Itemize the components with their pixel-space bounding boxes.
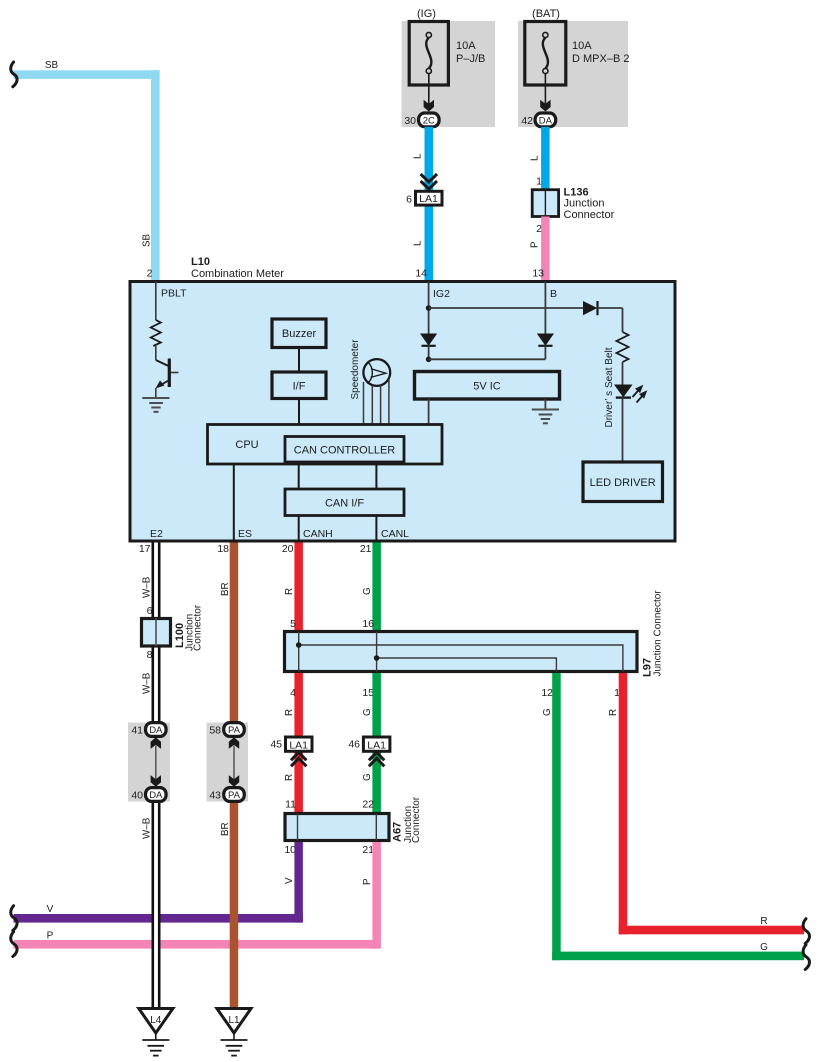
squiggle break at G right end [803,945,809,970]
node junction on IG2 [426,305,432,311]
svg-text:PBLT: PBLT [161,288,187,300]
junction connector L97 [285,632,638,672]
svg-text:V: V [284,877,295,884]
svg-text:LA1: LA1 [367,739,386,751]
wire label W-B (lower) [142,817,153,839]
connector pin 30 (2C) [404,113,439,127]
svg-text:17: 17 [139,543,151,555]
wire L (cyan) from 2C to meter pin 14 [425,127,434,282]
wire 5V IC to CPU [428,399,430,425]
arrow pair between PA connectors [229,737,239,787]
CAN CONTROLLER box [285,437,404,463]
pin 2 label [536,223,542,235]
pin 5 label [290,618,296,630]
wire junction to B branch [429,358,546,360]
wire label BR (lower) [220,822,231,836]
svg-text:Junction Connector: Junction Connector [653,590,664,677]
svg-text:5: 5 [290,618,296,630]
squiggle break at R right end [803,919,809,944]
label 10A D MPX-B 2 [572,40,629,65]
pin 17 label [139,543,151,555]
svg-text:SB: SB [142,233,153,247]
shaded block around IG fuse [402,21,496,127]
shaded block around PA pair [207,723,249,802]
svg-text:IG2: IG2 [433,288,450,300]
pin 21 label [360,543,372,555]
wire label G (middle) [362,708,373,716]
wire label P horizontal [47,931,54,942]
svg-text:R: R [284,588,295,595]
label Driver's Seat Belt (rotated) [604,347,615,427]
pin name CANL [381,528,409,540]
svg-text:Driver’ s Seat Belt: Driver’ s Seat Belt [604,347,615,427]
chevron junction on IG wire [421,174,437,189]
svg-text:LA1: LA1 [289,739,308,751]
svg-text:LED DRIVER: LED DRIVER [590,477,656,489]
pin 21 label (A67) [362,844,374,856]
Buzzer box [272,319,326,348]
label (BAT) [532,8,560,20]
svg-text:21: 21 [360,543,372,555]
svg-text:V: V [47,904,54,915]
svg-text:Connector: Connector [411,796,422,843]
svg-text:6: 6 [147,605,153,617]
wire junction to diode D3 [429,307,583,309]
shaded block around DA pair [128,723,170,802]
connector 45 LA1 [270,737,312,751]
svg-text:L4: L4 [150,1015,162,1026]
svg-text:12: 12 [541,687,553,699]
svg-text:6: 6 [406,194,412,206]
svg-text:PA: PA [228,790,241,801]
svg-text:L: L [413,153,424,159]
svg-text:G: G [362,708,373,716]
wire fuse BAT to connector DA with arrow [540,74,550,112]
svg-text:DA: DA [539,115,553,126]
svg-text:DA: DA [149,725,163,736]
svg-text:A67: A67 [392,822,404,842]
pin 1 label (L97) [614,687,620,699]
svg-text:P: P [362,878,373,885]
svg-text:18: 18 [217,543,229,555]
wire G (green) L97 pin 12 down and right [552,673,804,960]
svg-text:G: G [362,587,373,595]
pin 18 label [217,543,229,555]
combination meter box L10 [130,282,675,542]
svg-text:10A: 10A [456,40,476,52]
svg-text:41: 41 [131,725,143,737]
squiggle break at P left end [11,932,17,957]
svg-text:22: 22 [362,799,374,811]
ground (transistor emitter) [142,398,169,412]
svg-text:5V IC: 5V IC [473,381,501,393]
wire W-B from pin 17 to L100 [152,543,161,1009]
svg-text:D MPX–B 2: D MPX–B 2 [572,53,629,65]
svg-text:BR: BR [220,822,231,836]
resistor (seat belt branch) [617,332,629,362]
wire resistor to LED [622,362,624,385]
svg-text:15: 15 [362,687,374,699]
svg-text:(IG): (IG) [417,8,436,20]
wire label SB horizontal [45,60,59,71]
svg-text:30: 30 [404,115,416,127]
wire P (pink) A67 pin 21 down [372,842,381,949]
wire L (cyan) from DA to L136 [541,127,550,190]
svg-text:42: 42 [521,115,533,127]
svg-text:L1: L1 [228,1015,240,1026]
svg-text:R: R [608,709,619,716]
ground L1 [217,1009,251,1056]
wire label L (BAT) [530,155,541,161]
wire label R (rotated, L97 pin 1) [608,709,619,716]
svg-text:LA1: LA1 [419,193,438,205]
wire label W-B (upper) [142,576,153,598]
wire from pin 2 to resistor [155,282,157,321]
wire I/F to CPU [298,399,300,425]
connector pin 40 (DA) [131,788,166,802]
LED DRIVER box [583,462,663,502]
wire P (pink) horizontal to left edge [14,940,381,949]
LED (seat belt indicator) [614,385,647,403]
wire label G (upper) [362,587,373,595]
svg-text:P–J/B: P–J/B [456,53,485,65]
wire Buzzer to I/F [298,348,300,373]
junction connector A67 [285,814,389,841]
wire label G (lower) [362,773,373,781]
svg-text:8: 8 [147,649,153,661]
svg-text:13: 13 [532,268,544,280]
svg-text:46: 46 [348,739,360,751]
wire CANL inside meter [375,516,377,542]
5V IC box [415,372,560,400]
wire P (pink) from L136 to meter pin 13 [541,217,550,282]
pin 11 label [285,799,296,811]
fuse IG 10A P-J/B [409,22,448,86]
svg-text:R: R [284,709,295,716]
junction connector L136 [532,190,558,217]
pin name E2 [150,528,163,540]
junction connector L100 [142,619,171,647]
wire label G (rotated, L97 pin 12) [542,708,553,716]
wire LED to LED DRIVER [622,398,624,462]
svg-text:G: G [760,942,768,953]
pin 16 label [362,618,374,630]
svg-text:58: 58 [209,725,221,737]
transistor Q1 [156,346,179,398]
fuse BAT 10A D MPX-B 2 [525,22,566,86]
pin 12 label [541,687,553,699]
wires CAN CONTROLLER to CAN I/F [299,462,377,489]
svg-text:45: 45 [270,739,282,751]
wire label V (rotated) [284,877,295,884]
svg-text:40: 40 [131,790,143,802]
diode D2 (B) [537,334,554,360]
svg-text:21: 21 [362,844,374,856]
speedometer gauge symbol [363,359,390,386]
svg-text:Connector: Connector [193,604,204,651]
svg-text:G: G [542,708,553,716]
squiggle break at V left end [11,906,17,931]
svg-text:14: 14 [415,268,427,280]
wire label V horizontal [47,904,54,915]
pin 22 label [362,799,374,811]
wire label R (lower) [284,774,295,781]
svg-text:2C: 2C [423,115,435,126]
pin 1 label [536,176,542,188]
wire V (violet) A67 pin 10 down [294,842,303,923]
svg-text:I/F: I/F [293,381,306,393]
wire label R (upper) [284,588,295,595]
connector pin 41 (DA) [131,723,166,737]
svg-text:CPU: CPU [235,439,258,451]
wire label P [530,241,541,248]
chevron junction below 46 LA1 [369,752,384,766]
pin name B [550,288,557,300]
pin 6 label (L100) [147,605,153,617]
wire label G (right) [760,942,768,953]
wire BR lower segment [230,801,239,1009]
wire R (red) L97 pin 4 to LA1 [294,673,303,814]
svg-text:Speedometer: Speedometer [350,339,361,400]
pin 13 label [532,268,544,280]
speedometer wires to CPU [364,380,389,425]
svg-text:CAN CONTROLLER: CAN CONTROLLER [294,445,396,457]
wire IG2 down [428,282,430,334]
pin 14 label [415,268,427,280]
label L100 Junction Connector (rotated) [174,604,204,651]
pin 10 label [284,844,296,856]
label L97 Junction Connector (rotated) [642,590,664,677]
label 10A P-J/B [456,40,485,65]
svg-text:R: R [760,916,767,927]
label (IG) [417,8,436,20]
wire label L (IG lower) [413,240,424,246]
svg-text:P: P [530,241,541,248]
svg-text:CAN I/F: CAN I/F [325,498,364,510]
connector pin 43 (PA) [209,788,244,802]
svg-text:P: P [47,931,54,942]
svg-text:SB: SB [45,60,59,71]
pin name ES [238,528,252,540]
label Speedometer (rotated) [350,339,361,400]
pin 15 label [362,687,374,699]
CPU box [208,425,443,465]
svg-text:B: B [550,288,557,300]
svg-text:Combination Meter: Combination Meter [191,268,284,280]
wire R (red) L97 pin 1 down and right [619,673,804,934]
wire SB (sky blue) from left edge to meter pin 2 [14,70,160,281]
svg-text:R: R [284,774,295,781]
svg-text:10: 10 [284,844,296,856]
connector pin 58 (PA) [209,723,244,737]
diode D3 (to seat belt branch) [583,301,623,315]
wire G (green) pin 21 to L97 [372,543,381,632]
wire R (red) pin 20 to L97 [294,543,303,632]
node junction below D1 [426,357,432,363]
wire V (violet) horizontal to left edge [14,914,303,923]
svg-text:PA: PA [228,725,241,736]
svg-text:G: G [362,773,373,781]
svg-text:1: 1 [536,176,542,188]
label L136 Junction Connector [564,187,615,222]
svg-text:Junction: Junction [564,198,605,210]
svg-text:L10: L10 [191,256,210,268]
pin 20 label [282,543,294,555]
connector pin 42 (DA) [521,113,555,127]
connector 6 LA1 (IG wire) [406,191,442,205]
pin name CANH [303,528,333,540]
svg-text:ES: ES [238,528,252,540]
svg-text:16: 16 [362,618,374,630]
svg-text:11: 11 [285,799,296,811]
wire label BR (upper) [220,582,231,596]
squiggle break at SB left end [11,62,17,87]
pin 8 label (L100) [147,649,153,661]
svg-text:L: L [530,155,541,161]
wire B down [544,282,546,334]
arrow pair between DA connectors [151,737,161,787]
svg-text:W–B: W–B [142,817,153,839]
pin 4 label [290,687,296,699]
svg-text:E2: E2 [150,528,163,540]
wire D3 corner down to resistor [622,308,624,332]
svg-text:2: 2 [147,268,153,280]
wire label L (IG upper) [413,153,424,159]
connector 46 LA1 [348,737,390,751]
svg-text:W–B: W–B [142,672,153,694]
svg-text:L: L [413,240,424,246]
ground L4 [139,1009,173,1056]
diode D1 (IG2) [420,334,437,360]
wire label R (right) [760,916,767,927]
svg-text:10A: 10A [572,40,592,52]
I/F box [272,372,326,399]
svg-text:DA: DA [149,790,163,801]
pin name PBLT [161,288,187,300]
svg-text:(BAT): (BAT) [532,8,560,20]
wire label SB rotated [142,233,153,247]
label L10 Combination Meter [191,256,284,280]
chevron junction below 45 LA1 [291,752,306,766]
resistor (PBLT) [151,320,161,346]
svg-text:20: 20 [282,543,294,555]
wire label P (rotated) [362,878,373,885]
svg-text:43: 43 [209,790,221,802]
wire G (green) L97 pin 15 to LA1 [372,673,381,814]
wire 5V IC to ground [544,399,546,410]
wire ES inside meter [233,464,235,541]
svg-text:BR: BR [220,582,231,596]
shaded block around BAT fuse [518,21,628,127]
wire CANH inside meter [298,516,300,542]
wire label R (middle) [284,709,295,716]
CAN I/F box [285,489,404,516]
pin name IG2 [433,288,450,300]
wire BR from pin 18 down [230,543,239,724]
svg-text:Buzzer: Buzzer [282,328,317,340]
wire fuse IG to connector 2C with arrow [424,74,434,112]
svg-text:W–B: W–B [142,576,153,598]
svg-text:CANH: CANH [303,528,333,540]
wire label W-B (middle) [142,672,153,694]
pin 2 label (meter) [147,268,153,280]
ground (5V IC) [532,410,559,424]
label A67 Junction Connector (rotated) [392,796,423,843]
svg-text:Connector: Connector [564,209,615,221]
svg-text:CANL: CANL [381,528,409,540]
